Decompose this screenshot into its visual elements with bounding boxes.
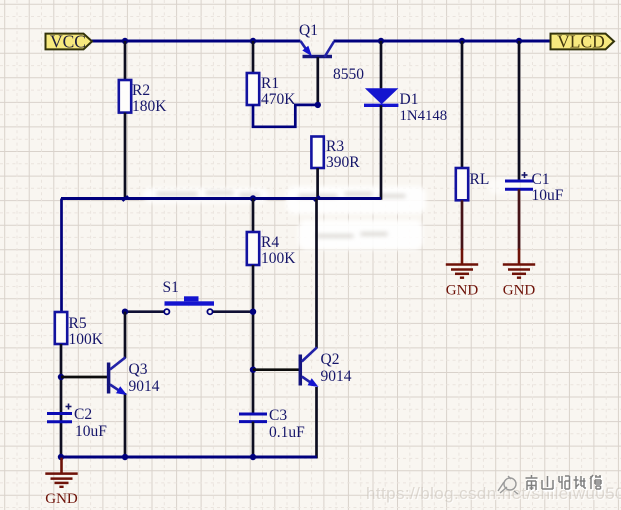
node S1 right junction	[250, 309, 256, 315]
wire bus to Q2 collector	[315, 199, 318, 349]
resistor R1	[247, 73, 259, 105]
wire Q2 emitter to bottom corner	[315, 387, 317, 457]
resistor R2	[119, 80, 131, 113]
ground symbol (C1)	[503, 249, 536, 299]
label 9014 (Q3)	[129, 378, 160, 395]
svg-text:S1: S1	[163, 279, 179, 296]
node R4 top (bus junction)	[250, 195, 256, 201]
svg-text:0.1uF: 0.1uF	[269, 424, 305, 441]
transistor Q3 base bar	[107, 363, 111, 394]
wire C1 to ground	[518, 189, 521, 250]
svg-text:R3: R3	[326, 138, 344, 155]
svg-text:GND: GND	[45, 491, 78, 507]
wire R2 to bus	[124, 113, 127, 199]
label Q2	[321, 351, 340, 368]
svg-text:9014: 9014	[321, 368, 352, 385]
transistor Q1 collector	[325, 42, 335, 58]
wire VLCD rail to RL	[461, 41, 464, 168]
svg-text:C1: C1	[532, 171, 550, 188]
label 390R	[326, 154, 360, 171]
svg-text:100K: 100K	[69, 331, 104, 348]
transistor Q2 emitter (arrow out)	[302, 377, 319, 388]
label 10uF (C2)	[75, 423, 107, 440]
wire S1 to Q3 collector	[124, 312, 127, 358]
wire Q2 base	[253, 368, 299, 371]
node VLCD/C1 junction	[516, 38, 522, 44]
svg-text:8550: 8550	[333, 66, 364, 83]
resistor RL	[456, 168, 468, 200]
wire S1 left	[125, 310, 164, 313]
label 180K	[132, 98, 167, 115]
label R2	[132, 82, 150, 99]
label 10uF (C1)	[532, 187, 564, 204]
transistor Q3 collector	[110, 357, 126, 369]
resistor R4	[247, 232, 259, 265]
label RL	[470, 171, 490, 188]
svg-text:470K: 470K	[261, 91, 296, 108]
wire R4 to C3	[252, 265, 255, 414]
wire S1 right	[212, 310, 253, 313]
svg-text:Q1: Q1	[299, 22, 318, 39]
ground symbol (main)	[45, 458, 78, 507]
svg-text:GND: GND	[503, 283, 536, 299]
svg-text:C3: C3	[269, 407, 287, 424]
transistor Q1 emitter (arrow into base)	[301, 41, 313, 56]
power port VCC	[46, 31, 93, 51]
label Q3	[129, 361, 148, 378]
svg-text:180K: 180K	[132, 98, 167, 115]
wire VCC rail (top, right of Q1)	[334, 40, 552, 43]
wire bus to R5	[60, 199, 63, 313]
wire VLCD rail to C1	[518, 41, 521, 181]
diode D1	[364, 88, 398, 105]
svg-text:R2: R2	[132, 82, 150, 99]
wire VCC to R2	[124, 41, 127, 80]
watermark logo icon	[494, 473, 524, 497]
svg-text:R1: R1	[261, 75, 279, 92]
node VLCD/RL junction	[459, 38, 465, 44]
svg-text:10uF: 10uF	[75, 423, 107, 440]
capacitor C3	[239, 414, 267, 422]
label 0.1uF	[269, 424, 305, 441]
wire Q1 base to node A	[316, 57, 319, 105]
resistor R3	[311, 137, 323, 169]
label 470K	[261, 91, 296, 108]
wire R5 to C2	[60, 344, 63, 457]
wire Q3 base	[61, 376, 107, 379]
resistor R5	[55, 312, 67, 344]
wire VCC rail (top, left of Q1)	[91, 40, 301, 43]
label R1	[261, 75, 279, 92]
label S1	[163, 279, 179, 296]
svg-text:C2: C2	[74, 406, 92, 423]
wire jog at R3 line crossing	[314, 196, 320, 201]
svg-text:10uF: 10uF	[532, 187, 564, 204]
wire R3 to bus	[316, 168, 319, 199]
capacitor C1	[505, 172, 533, 189]
wire VCC to R1	[252, 41, 255, 73]
svg-text:390R: 390R	[326, 154, 360, 171]
label Q1	[299, 22, 318, 39]
label C2	[74, 406, 92, 423]
wire jog at R2 line crossing	[123, 196, 129, 201]
svg-text:9014: 9014	[129, 378, 160, 395]
svg-text:R4: R4	[261, 234, 279, 251]
label R3	[326, 138, 344, 155]
svg-text:D1: D1	[400, 91, 419, 108]
svg-text:VLCD: VLCD	[557, 31, 605, 51]
node S1 left junction	[122, 309, 128, 315]
power port VLCD	[551, 31, 615, 51]
wire bottom (emitter/ground net)	[61, 456, 317, 459]
transistor Q2 base bar	[299, 355, 303, 386]
node VLCD/D1 junction	[378, 38, 384, 44]
node Q2 base junction	[250, 367, 256, 373]
wire D1 to bus corner	[380, 105, 383, 200]
svg-text:GND: GND	[446, 283, 479, 299]
transistor Q3 emitter (arrow out)	[110, 385, 127, 396]
label 1N4148	[400, 108, 448, 124]
wire R1 to node A	[253, 105, 316, 127]
svg-text:RL: RL	[470, 171, 490, 188]
transistor Q2 collector	[302, 347, 317, 361]
wire RL to ground	[461, 200, 464, 250]
node R5/Q3 base junction	[58, 374, 64, 380]
node Q3 emitter junction	[122, 454, 128, 460]
svg-text:Q3: Q3	[129, 361, 148, 378]
switch S1	[164, 296, 214, 314]
node VCC/R2 junction	[122, 38, 128, 44]
label 8550	[333, 66, 364, 83]
watermark text 南山归地僧	[525, 474, 615, 494]
svg-text:R5: R5	[69, 315, 87, 332]
capacitor C2	[47, 404, 72, 422]
label R5	[69, 315, 87, 332]
node A (R1/R3/Q1 base junction)	[315, 102, 321, 108]
svg-text:VCC: VCC	[50, 31, 86, 51]
node bottom left junction	[58, 454, 64, 460]
label 100K (R4)	[261, 250, 296, 267]
wire Q3 emitter to bottom	[124, 393, 127, 457]
label R4	[261, 234, 279, 251]
svg-text:Q2: Q2	[321, 351, 340, 368]
node VCC/R1 junction	[250, 38, 256, 44]
watermark ghost url	[366, 484, 621, 504]
label C1	[532, 171, 550, 188]
label 100K (R5)	[69, 331, 104, 348]
transistor Q1 base bar	[303, 55, 333, 59]
svg-text:100K: 100K	[261, 250, 296, 267]
svg-text:1N4148: 1N4148	[400, 108, 448, 124]
wire bus to R4	[252, 199, 255, 233]
ground symbol (RL)	[446, 249, 479, 299]
label 9014 (Q2)	[321, 368, 352, 385]
label D1	[400, 91, 419, 108]
wire VLCD rail to D1	[380, 41, 383, 88]
node C3 junction	[250, 454, 256, 460]
wire C3 to bottom	[252, 422, 255, 457]
wire bus (node B horizontal)	[61, 197, 381, 200]
label C3	[269, 407, 287, 424]
